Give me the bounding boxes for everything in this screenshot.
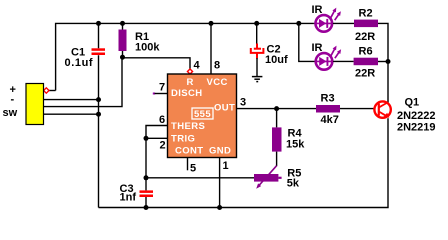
555 label box [192,108,213,119]
svg-text:sw: sw [3,107,18,119]
svg-text:OUT: OUT [214,102,235,113]
svg-text:8: 8 [214,60,220,72]
LED IR D2 [316,46,341,70]
potentiometer R5 [254,174,278,182]
node C3 bottom junction [144,205,149,210]
svg-text:22R: 22R [355,67,375,79]
node top rail junction C1 [96,21,101,26]
resistor R4 [272,127,282,151]
wire pin 7 DISCH [153,93,155,95]
wire battery to diamond [48,90,55,92]
wire CONT rail [146,177,254,179]
wire R6 to collector rail [378,61,388,63]
svg-text:7: 7 [159,82,165,94]
wire C2 branch [256,23,258,44]
svg-text:GND: GND [209,146,231,157]
wire LED2 to R6 [333,60,354,62]
wire pin 6 THERS [146,126,168,139]
svg-text:DISCH: DISCH [171,88,203,99]
wire left ground rail through C1 [98,23,100,48]
R5 wiper arrow [259,166,277,186]
wire pin 1 GND [219,158,221,208]
wire R1 bottom to pin 4 [123,58,191,70]
node top rail junction pin8 [209,21,214,26]
battery sw (yellow box) [26,84,44,125]
node OUT junction [274,106,279,111]
svg-text:15k: 15k [286,138,305,150]
resistor R6 [354,58,378,65]
R5 right stub [278,177,281,179]
svg-text:R3: R3 [321,93,335,105]
svg-text:10uf: 10uf [265,54,288,66]
wire bottom ground rail [99,118,389,207]
node top rail junction R1 [120,21,125,26]
svg-text:0.1uf: 0.1uf [65,57,94,69]
wire pin 2 TRIG [146,137,168,139]
svg-text:Q1: Q1 [405,96,420,108]
transistor Q1 [374,101,390,117]
capacitor C2 (polarized, red) [251,44,264,59]
svg-text:4: 4 [194,60,201,72]
LED D2 branch wire [299,23,315,61]
wire top rail [56,23,314,90]
resistor R1 [122,23,124,29]
svg-text:3: 3 [240,96,246,108]
wire R4 to R5 wiper [276,152,278,167]
svg-text:-: - [11,94,15,106]
wire pin 8 VCC [210,23,212,74]
svg-text:R2: R2 [359,7,373,19]
wire LED1 to R2 [333,22,354,24]
wire pin 5 stub [187,158,189,171]
svg-text:1nf: 1nf [120,192,137,204]
svg-text:2N2219: 2N2219 [397,122,436,134]
node CONT wire junction [144,175,149,180]
node pin4 connector (red diamond) [187,69,192,74]
ground [252,77,263,82]
node pin1 bottom junction [217,205,222,210]
wire R3 to Q1 base [340,108,374,110]
svg-text:22R: 22R [355,31,375,43]
capacitor C1 [92,48,106,51]
svg-text:R: R [187,77,194,88]
svg-text:5: 5 [190,162,196,174]
node top rail junction C2 [254,21,259,26]
svg-text:5k: 5k [287,178,300,190]
LED IR D1 [316,8,341,32]
LED D1 branch wire [313,22,316,24]
svg-text:THERS: THERS [171,121,205,132]
node R1 bottom junction [120,55,125,60]
svg-text:1: 1 [223,160,229,172]
svg-text:100k: 100k [135,42,160,54]
wire R2 to collector rail [378,23,388,61]
svg-text:555: 555 [194,109,211,120]
svg-text:4k7: 4k7 [321,114,339,126]
wire TRIG junction down to C3 [145,138,147,190]
svg-text:IR: IR [312,4,323,16]
wire OUT pin 3 [237,108,317,110]
IC 555 U1 body [168,74,237,158]
svg-text:TRIG: TRIG [171,133,195,144]
node top rail junction LED2 [296,21,301,26]
wire battery terminal 1 [44,99,99,101]
wire collector rail down [387,62,389,103]
node ground rail junction 2 [96,112,101,117]
wire battery terminal 2 to R1 bottom [44,57,123,106]
svg-text:VCC: VCC [207,77,228,88]
node TRIG junction [144,136,149,141]
resistor R3 [316,105,340,113]
wire R4 branch [276,109,278,128]
capacitor C3 [140,190,154,193]
svg-text:2: 2 [160,140,166,152]
node battery + connector (red diamond) [44,88,49,93]
svg-text:IR: IR [312,42,323,54]
node ground rail junction 1 [96,97,101,102]
svg-text:6: 6 [159,114,165,126]
resistor R2 [354,20,378,28]
wire C2 to ground [256,58,258,76]
svg-text:CONT: CONT [175,146,204,157]
svg-text:2N2222: 2N2222 [397,110,436,122]
svg-text:R6: R6 [359,46,373,58]
wire battery terminal 3 [44,113,99,115]
node collector rail junction [386,59,391,64]
